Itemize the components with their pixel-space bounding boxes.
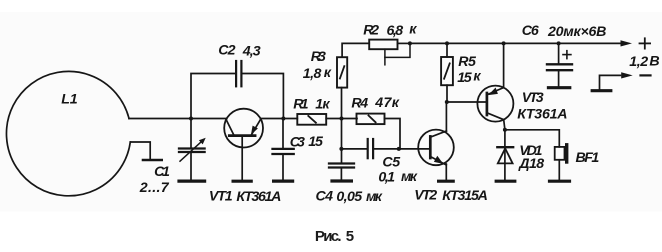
svg-text:C5: C5 — [382, 154, 401, 170]
svg-text:мк: мк — [366, 189, 383, 205]
svg-text:КТ315А: КТ315А — [442, 188, 488, 204]
svg-text:R4: R4 — [351, 95, 368, 111]
svg-text:Рис.: Рис. — [315, 228, 342, 245]
svg-text:C3: C3 — [290, 134, 305, 150]
svg-text:С6: С6 — [522, 23, 539, 39]
svg-text:BF1: BF1 — [576, 150, 600, 166]
svg-text:15: 15 — [308, 134, 324, 150]
svg-text:VT2: VT2 — [414, 188, 437, 204]
svg-text:КТ361А: КТ361А — [236, 189, 281, 205]
svg-text:47к: 47к — [374, 95, 399, 111]
svg-text:1к: 1к — [315, 96, 330, 112]
svg-text:C4: C4 — [316, 189, 334, 205]
svg-text:VT3: VT3 — [522, 90, 544, 106]
svg-text:L1: L1 — [61, 91, 78, 107]
svg-text:мк: мк — [401, 169, 418, 185]
svg-text:Д18: Д18 — [518, 156, 544, 172]
svg-text:к: к — [473, 68, 481, 84]
svg-text:20мк×6В: 20мк×6В — [547, 24, 606, 40]
svg-text:к: к — [324, 65, 332, 81]
svg-text:2...7: 2...7 — [139, 180, 170, 196]
svg-text:5: 5 — [346, 228, 354, 245]
svg-text:R2: R2 — [363, 23, 379, 39]
svg-text:0,1: 0,1 — [378, 169, 395, 185]
svg-text:VT1: VT1 — [209, 189, 233, 205]
svg-text:к: к — [409, 21, 417, 37]
svg-text:1,8: 1,8 — [303, 66, 322, 82]
svg-text:R5: R5 — [458, 54, 477, 70]
svg-text:6,8: 6,8 — [387, 23, 404, 39]
svg-text:0,05: 0,05 — [336, 189, 363, 205]
svg-text:В: В — [649, 53, 659, 69]
svg-text:КТ361А: КТ361А — [517, 107, 567, 123]
svg-text:R3: R3 — [311, 49, 326, 65]
svg-text:C1: C1 — [154, 164, 170, 180]
svg-text:R1: R1 — [293, 97, 308, 113]
svg-text:С2: С2 — [218, 43, 235, 59]
svg-text:1,2: 1,2 — [629, 54, 648, 70]
svg-text:4,3: 4,3 — [242, 43, 261, 59]
svg-text:15: 15 — [457, 70, 473, 86]
